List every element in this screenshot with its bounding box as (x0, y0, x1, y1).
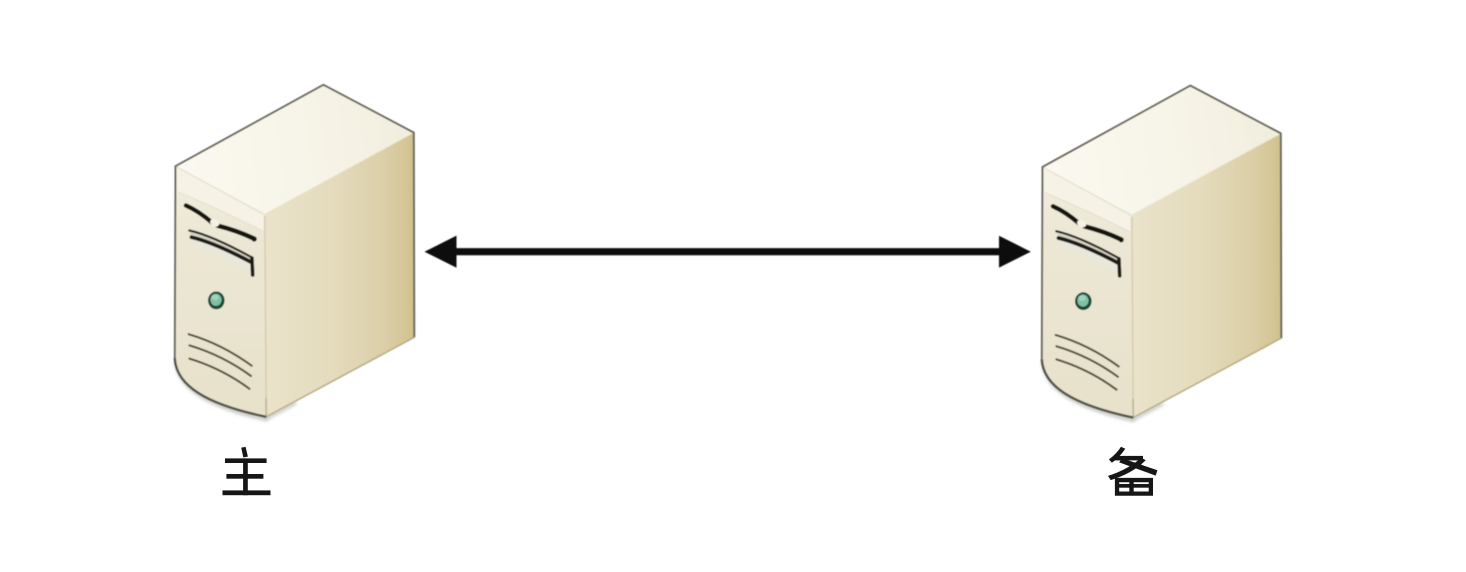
label 备 (standby) (1108, 447, 1157, 496)
bidirectional link arrow between servers (425, 236, 1031, 268)
label 主 (primary) (223, 447, 271, 495)
server tower: primary (left) (175, 85, 414, 420)
server tower: standby (right) (1042, 86, 1282, 421)
